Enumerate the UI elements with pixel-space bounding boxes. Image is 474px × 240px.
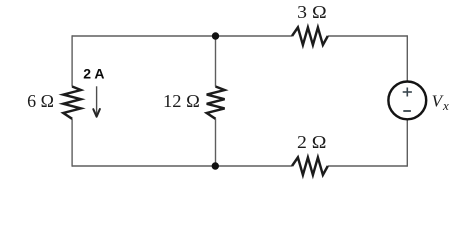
svg-text:12 Ω: 12 Ω <box>163 91 200 111</box>
svg-text:3 Ω: 3 Ω <box>297 2 327 22</box>
svg-text:6 Ω: 6 Ω <box>27 91 54 111</box>
current arrow 2 A shaft <box>96 86 98 115</box>
voltage source plus sign <box>403 88 412 97</box>
junction dot top node <box>212 32 219 39</box>
junction dot bottom node <box>212 162 219 169</box>
wire bottom-right segment <box>328 165 408 167</box>
wire left branch upper <box>71 35 73 86</box>
wire right branch lower <box>406 120 408 167</box>
wire bottom-left segment <box>72 165 292 167</box>
current arrow 2 A head <box>93 109 100 117</box>
resistor 3 ohm <box>292 27 328 45</box>
wire left branch lower <box>71 119 73 167</box>
wire middle branch upper <box>215 36 217 87</box>
svg-text:2 Ω: 2 Ω <box>297 132 327 152</box>
resistor 6 ohm <box>63 87 81 119</box>
wire top-right segment <box>328 35 408 37</box>
svg-text:Vx: Vx <box>432 91 449 113</box>
wire middle branch lower <box>215 119 217 166</box>
resistor 12 ohm <box>207 87 225 119</box>
voltage source Vx circle <box>388 82 426 120</box>
svg-text:2 A: 2 A <box>83 66 104 82</box>
voltage source minus sign <box>403 110 411 112</box>
wire top-left segment <box>72 35 292 37</box>
resistor 2 ohm <box>292 157 328 175</box>
wire right branch upper <box>406 35 408 80</box>
